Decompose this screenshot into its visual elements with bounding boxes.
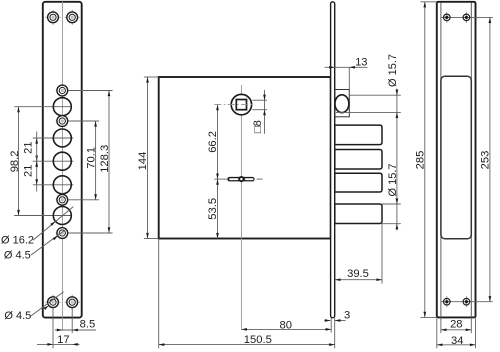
extension line hole I center <box>68 232 113 234</box>
extension line body top <box>144 76 159 78</box>
dimension 144 label <box>137 152 149 171</box>
spindle hub circle <box>231 94 251 114</box>
svg-text:Ø 16.2: Ø 16.2 <box>1 235 34 247</box>
side screw bottom-right <box>463 296 470 307</box>
svg-text:Ø 4.5: Ø 4.5 <box>4 250 31 262</box>
dimension 128.3 label <box>99 145 111 173</box>
dimension 70.1 label <box>85 147 97 169</box>
label diameter 4.5 lower <box>4 310 31 322</box>
svg-text:128.3: 128.3 <box>99 145 111 173</box>
dimension 21 upper label <box>22 141 34 153</box>
extension line inner right below <box>470 317 472 333</box>
label diameter 16.2 <box>1 235 34 247</box>
small hole C <box>56 114 69 127</box>
dimension 253 line <box>489 17 492 301</box>
dimension 39.5 line <box>335 278 382 281</box>
svg-text:66.2: 66.2 <box>207 131 219 153</box>
faceplate front view outline <box>43 2 82 318</box>
dimension diameter 15.7 line <box>396 89 399 231</box>
dimension 3 label <box>344 309 350 321</box>
dimension 144 line <box>146 77 149 239</box>
dimension 21 lower label <box>22 165 34 177</box>
extension line latch edge <box>348 67 350 95</box>
side screw bottom-left <box>444 296 451 307</box>
extension line hole C center <box>68 120 100 122</box>
dimension diameter 15.7 bolt label <box>387 163 399 196</box>
deadbolt 2 <box>335 150 382 170</box>
extension line inner left below <box>440 317 442 333</box>
dimension 8.5 label <box>80 318 96 330</box>
screw hole bottom-left <box>45 295 60 310</box>
extension line side top <box>420 1 436 3</box>
latch housing <box>335 90 350 117</box>
svg-text:53.5: 53.5 <box>207 198 219 220</box>
deadbolt 3 <box>335 173 382 192</box>
dimension 28 label <box>450 319 462 331</box>
dimension 13 label <box>355 57 367 69</box>
svg-text:80: 80 <box>279 319 291 331</box>
key horizontal centerline <box>214 178 227 180</box>
large hole E <box>53 152 71 170</box>
extension line hole D center <box>33 137 74 139</box>
svg-text:21: 21 <box>22 165 34 177</box>
extension line body left edge <box>158 239 160 349</box>
large hole H (diam 16.2) <box>53 207 71 225</box>
key centerline dash right <box>257 178 263 180</box>
dimension 80 label <box>279 319 291 331</box>
svg-text:70.1: 70.1 <box>85 147 97 169</box>
faceplate edge-on bar <box>331 2 335 318</box>
svg-text:253: 253 <box>480 151 492 170</box>
side view inner plate right line <box>470 3 472 318</box>
large hole B <box>53 98 71 116</box>
dimension 8.5 line <box>55 329 96 332</box>
spindle square 8mm <box>236 100 246 110</box>
dimension 53.5 line <box>216 179 219 238</box>
small hole G <box>56 193 69 206</box>
spindle horizontal centerline <box>214 104 252 106</box>
extension line bolt4 bottom <box>382 223 401 225</box>
extension line hole E center <box>33 160 74 162</box>
dimension square 8 label <box>252 120 264 133</box>
deadbolt 1 <box>335 125 382 145</box>
square 8 bottom edge line <box>252 109 267 111</box>
deadbolt 4 <box>335 204 382 224</box>
large hole D <box>53 129 71 147</box>
leader diameter 4.5 lower <box>31 292 64 316</box>
extension line bolt4 top <box>382 203 401 205</box>
dimension square 8 line <box>263 90 266 134</box>
side view body cover <box>441 76 471 239</box>
extension line outer left below <box>436 318 438 348</box>
latch bolt head <box>335 95 349 113</box>
dimension 150.5 label <box>244 334 272 346</box>
svg-text:3: 3 <box>344 309 350 321</box>
side screw top-left <box>444 12 451 23</box>
svg-text:28: 28 <box>450 319 462 331</box>
extension line latch top <box>350 94 401 96</box>
dimension 285 label <box>415 151 427 170</box>
extension line hole B center <box>14 106 71 108</box>
extension line side bottom <box>420 316 436 318</box>
extension line outer right below <box>475 318 477 348</box>
svg-text:285: 285 <box>415 151 427 170</box>
small hole I (diam 4.5) <box>56 226 69 239</box>
dimension diameter 15.7 latch label <box>387 54 399 87</box>
svg-text:Ø 4.5: Ø 4.5 <box>4 310 31 322</box>
screw hole top-right <box>65 10 80 25</box>
dimension 70.1 line <box>94 121 97 200</box>
dimension 253 label <box>480 151 492 170</box>
extension line bottom-right screw <box>71 309 73 334</box>
extension line faceplate left edge <box>330 318 332 332</box>
label diameter 4.5 upper <box>4 250 31 262</box>
extension line faceplate right edge <box>334 318 336 348</box>
dimension 128.3 line <box>108 91 111 234</box>
dimension 34 line <box>437 343 476 346</box>
dimension 34 label <box>451 335 463 347</box>
dimension 21 lower line <box>35 155 38 192</box>
small hole A <box>56 84 69 97</box>
dimension 66.2 label <box>207 131 219 153</box>
screw hole bottom-right <box>65 295 80 310</box>
side screw top-right <box>463 12 470 23</box>
square 8 top edge line <box>252 99 267 101</box>
extension line bolt end <box>381 224 383 284</box>
dimension 28 line <box>441 328 471 331</box>
extension line bottom-left screw <box>52 309 54 349</box>
faceplate vertical centerline <box>61 1 63 331</box>
leader diameter 4.5 upper <box>31 229 66 255</box>
svg-text:17: 17 <box>57 334 69 346</box>
dimension 53.5 label <box>207 198 219 220</box>
svg-text:Ø 15.7: Ø 15.7 <box>387 163 399 196</box>
dimension 66.2 line <box>216 105 219 180</box>
svg-text:21: 21 <box>22 141 34 153</box>
screw hole top-left <box>45 10 60 25</box>
side view inner plate left line <box>440 3 442 318</box>
dimension 80 line <box>241 328 331 331</box>
lock body outline <box>159 77 331 239</box>
extension line hole F center <box>33 184 74 186</box>
dimension 17 label <box>57 334 69 346</box>
extension line body bottom <box>144 238 159 240</box>
svg-text:8.5: 8.5 <box>80 318 96 330</box>
svg-text:150.5: 150.5 <box>244 334 272 346</box>
dimension 21 upper line <box>35 132 38 168</box>
svg-text:39.5: 39.5 <box>347 268 369 280</box>
side screw top line <box>441 16 493 18</box>
key cylinder <box>227 176 254 182</box>
svg-text:13: 13 <box>355 57 367 69</box>
dimension 150.5 line <box>159 343 335 346</box>
side view outer case <box>437 2 476 318</box>
svg-text:Ø 15.7: Ø 15.7 <box>387 54 399 87</box>
extension line hole A center <box>68 90 113 92</box>
extension line hole G center <box>68 199 100 201</box>
svg-text:34: 34 <box>451 335 463 347</box>
large hole F <box>53 176 71 194</box>
dimension 17 line <box>37 343 80 346</box>
body vertical centerline <box>240 85 242 329</box>
extension line latch bottom <box>336 111 401 113</box>
dimension 285 line <box>423 2 426 318</box>
dimension 13 line <box>325 66 368 69</box>
extension line hole H center <box>14 215 71 217</box>
dimension 39.5 label <box>347 268 369 280</box>
dimension 98.2 line <box>17 107 20 216</box>
dimension 98.2 label <box>9 151 21 173</box>
svg-text:98.2: 98.2 <box>9 151 21 173</box>
dimension 3 lines <box>324 319 345 322</box>
svg-text:144: 144 <box>137 152 149 171</box>
side screw bottom line <box>441 301 493 303</box>
svg-text:□8: □8 <box>252 120 264 133</box>
leader diameter 16.2 <box>33 207 73 241</box>
